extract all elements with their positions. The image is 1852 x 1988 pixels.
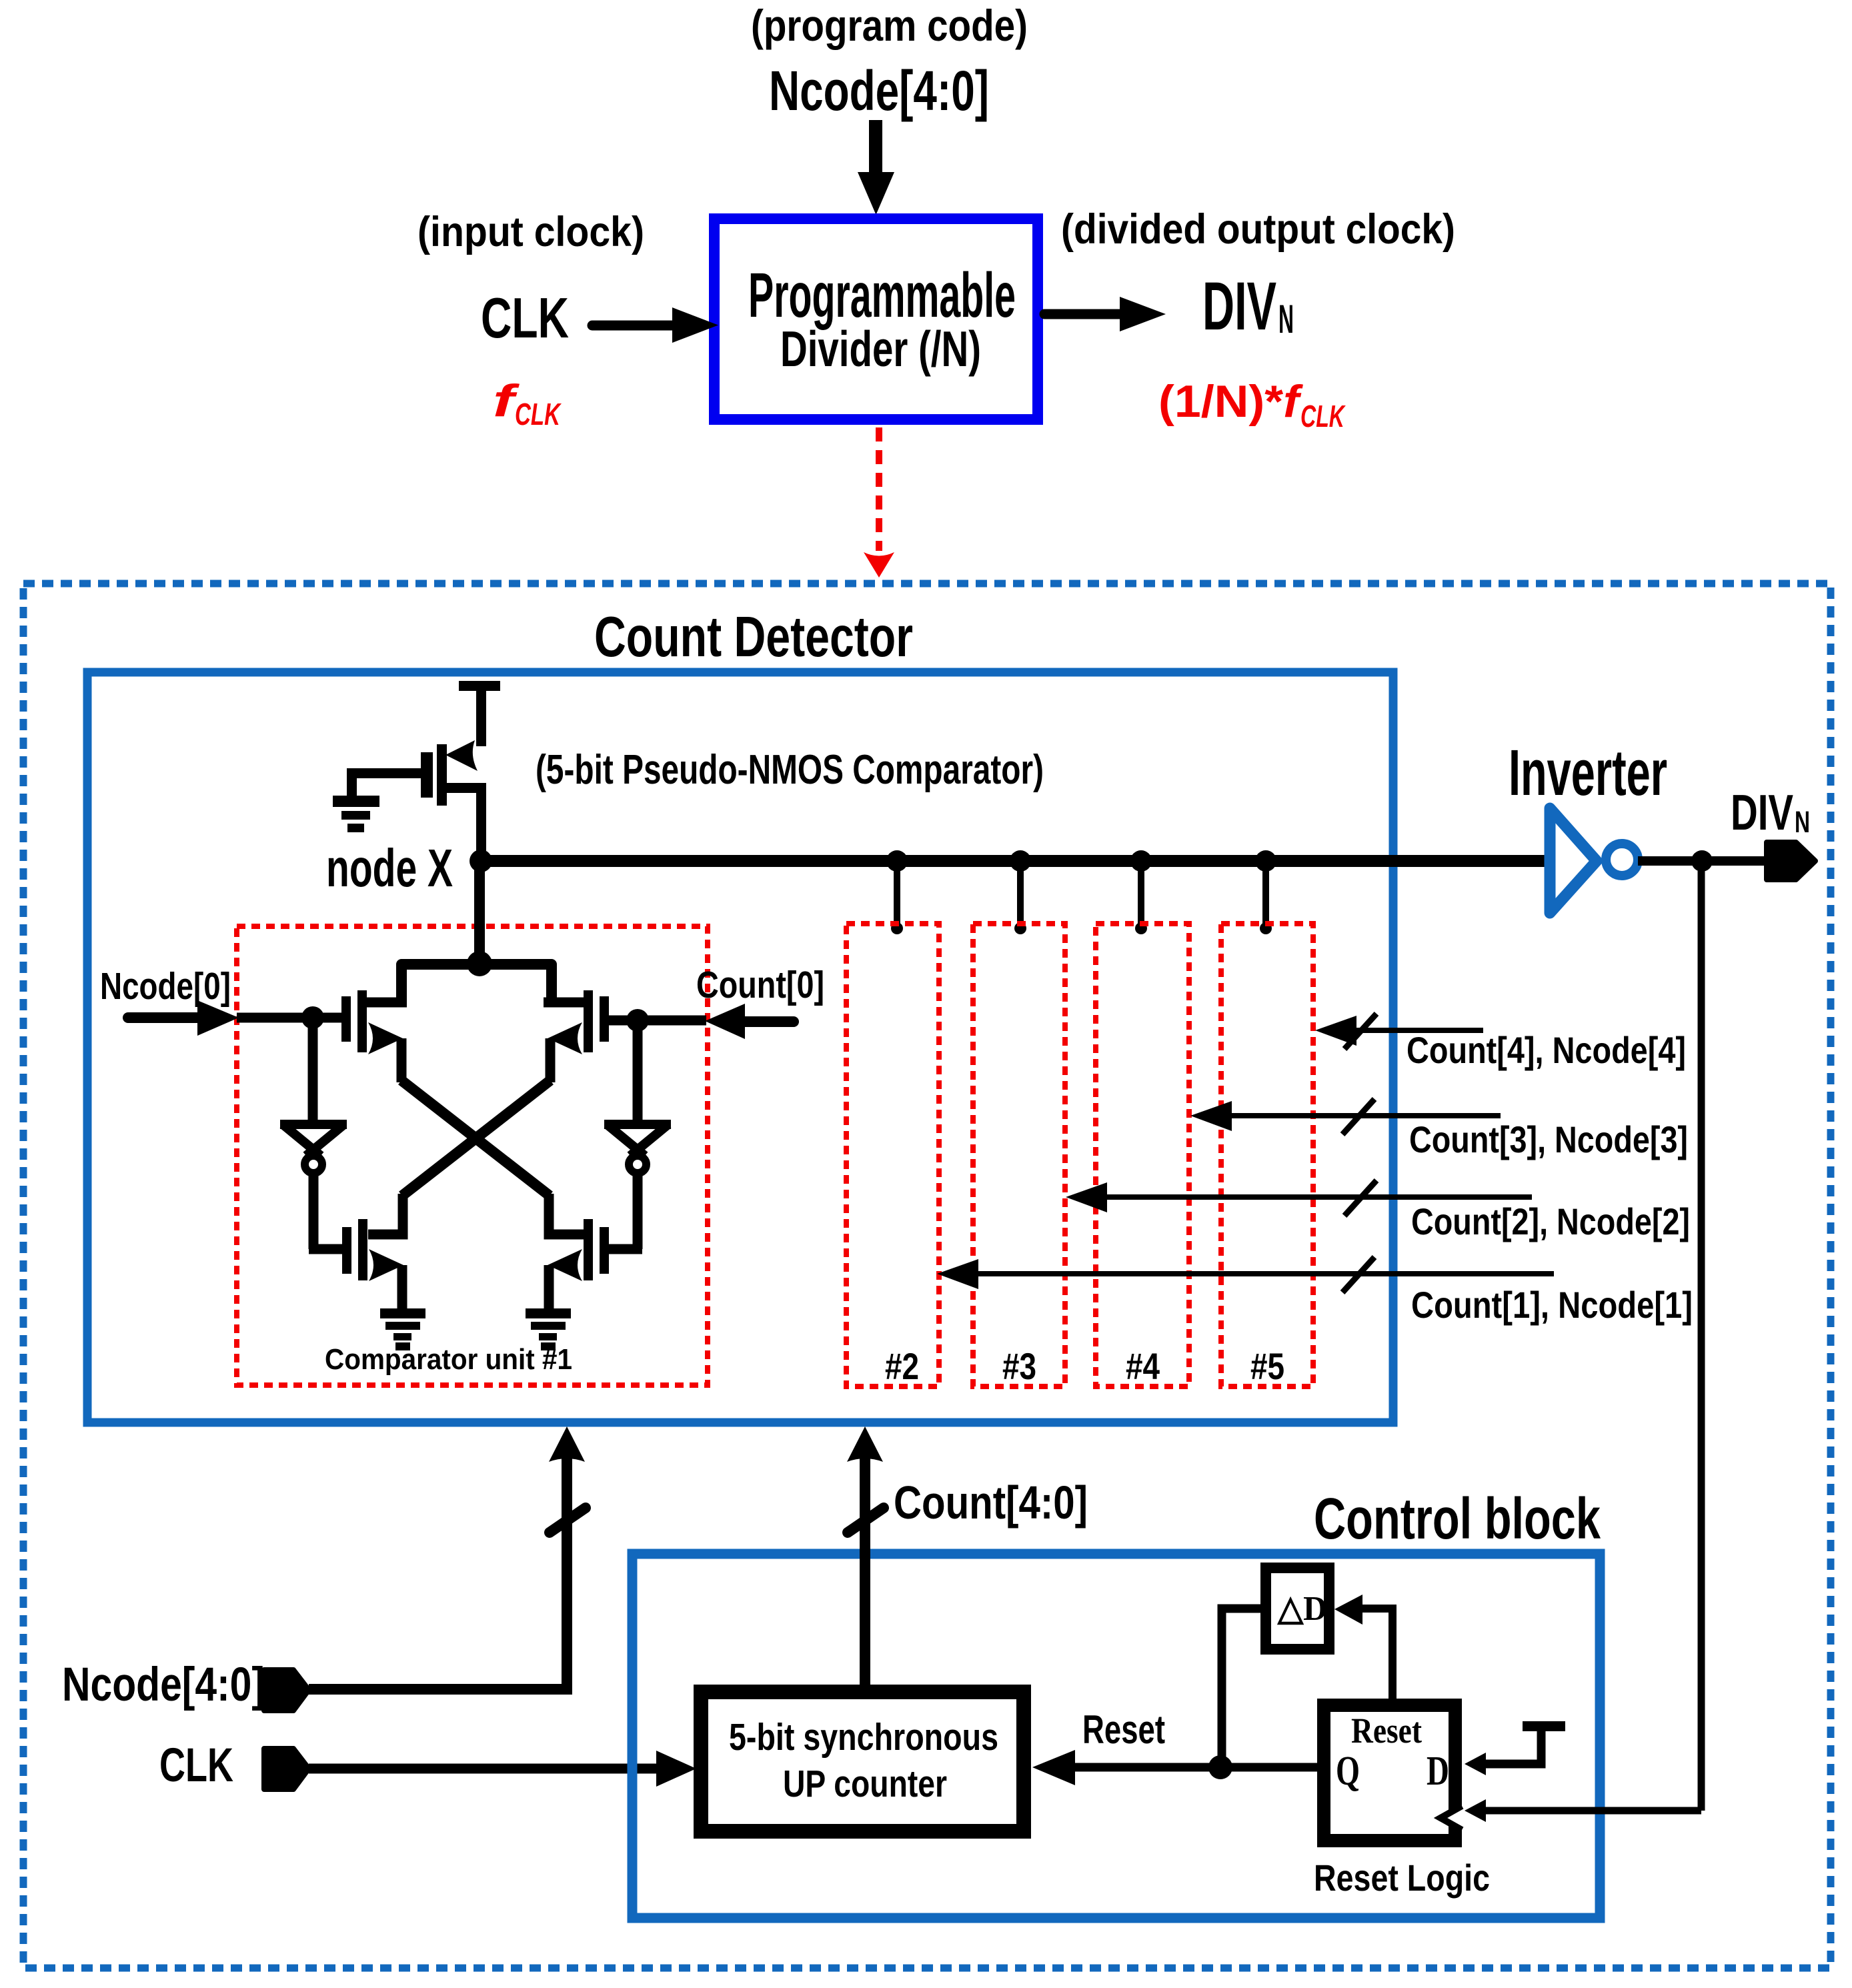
wire Count[1] Ncode[1] bus arrow bbox=[937, 1257, 1554, 1292]
svg-text:Comparator unit #1: Comparator unit #1 bbox=[325, 1343, 572, 1376]
wire to bottom-left drain bbox=[368, 1194, 403, 1234]
wire CLK to UP counter bbox=[309, 1764, 658, 1774]
flip-flop Reset Logic DFF bbox=[1324, 1705, 1455, 1841]
svg-text:Ncode[0]: Ncode[0] bbox=[100, 965, 231, 1008]
svg-text:Reset: Reset bbox=[1351, 1711, 1422, 1751]
junction dot unit2 tap bbox=[886, 850, 908, 872]
port DIVN output pentagon bbox=[1767, 842, 1815, 880]
svg-text:Count[1], Ncode[1]: Count[1], Ncode[1] bbox=[1411, 1284, 1693, 1326]
inverter X1 left bbox=[280, 1018, 347, 1249]
wire Count[3] Ncode[3] bus arrow bbox=[1190, 1099, 1501, 1134]
comparator unit #1 red dashed box bbox=[237, 926, 708, 1385]
wire Count[0] input arrow bbox=[742, 1016, 794, 1027]
wire Count[4] Ncode[4] bus arrow bbox=[1315, 1014, 1483, 1049]
svg-text:Divider (/N): Divider (/N) bbox=[780, 321, 981, 377]
inverter X2 right bbox=[604, 1020, 671, 1249]
wire Ncode[0] input arrow bbox=[128, 1012, 200, 1023]
wire stub to unit5 bbox=[1260, 861, 1272, 934]
svg-text:DIV: DIV bbox=[1202, 268, 1276, 344]
svg-text:#4: #4 bbox=[1126, 1345, 1160, 1387]
svg-text:Control block: Control block bbox=[1314, 1486, 1601, 1551]
wire inverter output bbox=[1638, 856, 1771, 866]
transistor M0 pseudo-NMOS PMOS load bbox=[347, 681, 500, 863]
wire stub to unit2 bbox=[891, 861, 903, 934]
wire dD input from DFF top bbox=[1334, 1595, 1362, 1625]
junction dot reset node bbox=[1208, 1755, 1232, 1779]
svg-text:Count[4:0]: Count[4:0] bbox=[894, 1476, 1088, 1529]
wire DIVN feedback into DFF clock bbox=[1486, 1807, 1701, 1815]
svg-text:CLK: CLK bbox=[159, 1739, 233, 1792]
transistor M2 top-right NMOS bbox=[544, 990, 609, 1082]
svg-text:N: N bbox=[1795, 805, 1810, 839]
wire node X to comparator bbox=[474, 861, 485, 964]
junction dot Count[0] gate bbox=[626, 1009, 649, 1032]
svg-text:(program code): (program code) bbox=[751, 1, 1028, 50]
svg-text:Count[3], Ncode[3]: Count[3], Ncode[3] bbox=[1409, 1118, 1688, 1160]
wire Ncode arrow shaft bbox=[869, 120, 882, 177]
node X junction dot bbox=[470, 850, 492, 872]
junction dot unit5 tap bbox=[1255, 850, 1276, 872]
junction dot comparator top bbox=[467, 951, 492, 976]
comparator unit #4 bbox=[1096, 924, 1189, 1386]
wire dD output to reset node bbox=[1222, 1609, 1260, 1767]
svg-text:node X: node X bbox=[326, 838, 453, 898]
svg-text:5-bit synchronous: 5-bit synchronous bbox=[729, 1716, 998, 1759]
wire comparator top bus bbox=[401, 964, 552, 1004]
outer dashed block border bbox=[23, 584, 1831, 1968]
svg-text:DIV: DIV bbox=[1731, 784, 1793, 840]
junction dot unit4 tap bbox=[1130, 850, 1152, 872]
box Count Detector bbox=[87, 672, 1393, 1422]
svg-text:UP counter: UP counter bbox=[783, 1763, 947, 1805]
svg-text:(5-bit Pseudo-NMOS Comparator): (5-bit Pseudo-NMOS Comparator) bbox=[536, 747, 1044, 793]
wire stub to unit4 bbox=[1135, 861, 1147, 934]
svg-text:CLK: CLK bbox=[481, 287, 569, 350]
wire Ncode[4:0] to comparator bbox=[309, 1440, 567, 1689]
svg-text:D: D bbox=[1427, 1749, 1449, 1794]
wire CLK arrow bbox=[592, 321, 674, 331]
ground at PMOS gate bbox=[333, 796, 379, 832]
transistor M4 bottom-right NMOS bbox=[548, 1219, 609, 1308]
junction dot Ncode[0] gate bbox=[301, 1006, 324, 1029]
ground bottom-right bbox=[526, 1308, 571, 1350]
svg-text:(input clock): (input clock) bbox=[417, 209, 644, 255]
svg-text:Q: Q bbox=[1336, 1749, 1360, 1794]
box Programmable Divider bbox=[714, 219, 1038, 419]
svg-text:Ncode[4:0]: Ncode[4:0] bbox=[62, 1659, 265, 1711]
svg-text:(1/N)*f: (1/N)*f bbox=[1158, 376, 1304, 427]
wire red dashed arrow down bbox=[876, 427, 882, 551]
wire cross-couple diagonal left bbox=[401, 1080, 550, 1196]
inverter U1 blue bbox=[1550, 808, 1638, 913]
wire node X horizontal bbox=[481, 855, 1546, 867]
svg-text:Reset: Reset bbox=[1082, 1707, 1165, 1752]
wire to bottom-right drain bbox=[549, 1194, 584, 1234]
svg-text:CLK: CLK bbox=[515, 397, 562, 431]
svg-text:#2: #2 bbox=[885, 1345, 919, 1387]
svg-text:(divided output clock): (divided output clock) bbox=[1061, 206, 1455, 253]
svg-text:Ncode[4:0]: Ncode[4:0] bbox=[769, 59, 989, 122]
transistor M1 top-left NMOS bbox=[341, 990, 407, 1082]
svg-text:Count[0]: Count[0] bbox=[696, 964, 824, 1006]
svg-text:Count Detector: Count Detector bbox=[594, 606, 913, 669]
wire Reset to counter bbox=[1075, 1763, 1317, 1772]
wire cross-couple diagonal right bbox=[402, 1080, 550, 1196]
junction dot unit3 tap bbox=[1010, 850, 1031, 872]
box 5-bit synchronous UP counter bbox=[701, 1692, 1024, 1831]
svg-text:△D: △D bbox=[1276, 1590, 1327, 1628]
arrowhead into divider box bbox=[858, 172, 894, 215]
svg-text:#5: #5 bbox=[1250, 1345, 1284, 1387]
wire Count[4:0] to comparator bbox=[860, 1440, 870, 1685]
junction dot DIVN feedback bbox=[1691, 850, 1713, 872]
transistor M3 bottom-left NMOS bbox=[342, 1219, 403, 1308]
delay element dD box bbox=[1266, 1568, 1329, 1649]
wire output arrow bbox=[1044, 309, 1122, 319]
svg-text:N: N bbox=[1278, 297, 1294, 341]
wire DIVN feedback vertical bbox=[1698, 861, 1705, 1811]
wire Count[2] Ncode[2] bus arrow bbox=[1066, 1180, 1532, 1216]
wire stub to unit3 bbox=[1014, 861, 1026, 934]
box Control block bbox=[632, 1554, 1600, 1918]
svg-text:#3: #3 bbox=[1002, 1345, 1036, 1387]
svg-text:CLK: CLK bbox=[1300, 399, 1346, 433]
ground bottom-left bbox=[380, 1308, 425, 1350]
wire D input with stub bbox=[1523, 1721, 1565, 1731]
svg-text:Count[2], Ncode[2]: Count[2], Ncode[2] bbox=[1411, 1200, 1690, 1242]
comparator unit #3 bbox=[973, 924, 1065, 1386]
clock wedge on DFF bbox=[1441, 1806, 1462, 1830]
svg-text:Count[4], Ncode[4]: Count[4], Ncode[4] bbox=[1407, 1029, 1686, 1071]
comparator unit #5 bbox=[1221, 924, 1313, 1386]
svg-text:Inverter: Inverter bbox=[1509, 736, 1667, 809]
svg-text:Reset Logic: Reset Logic bbox=[1314, 1857, 1490, 1899]
comparator unit #2 bbox=[846, 924, 939, 1386]
